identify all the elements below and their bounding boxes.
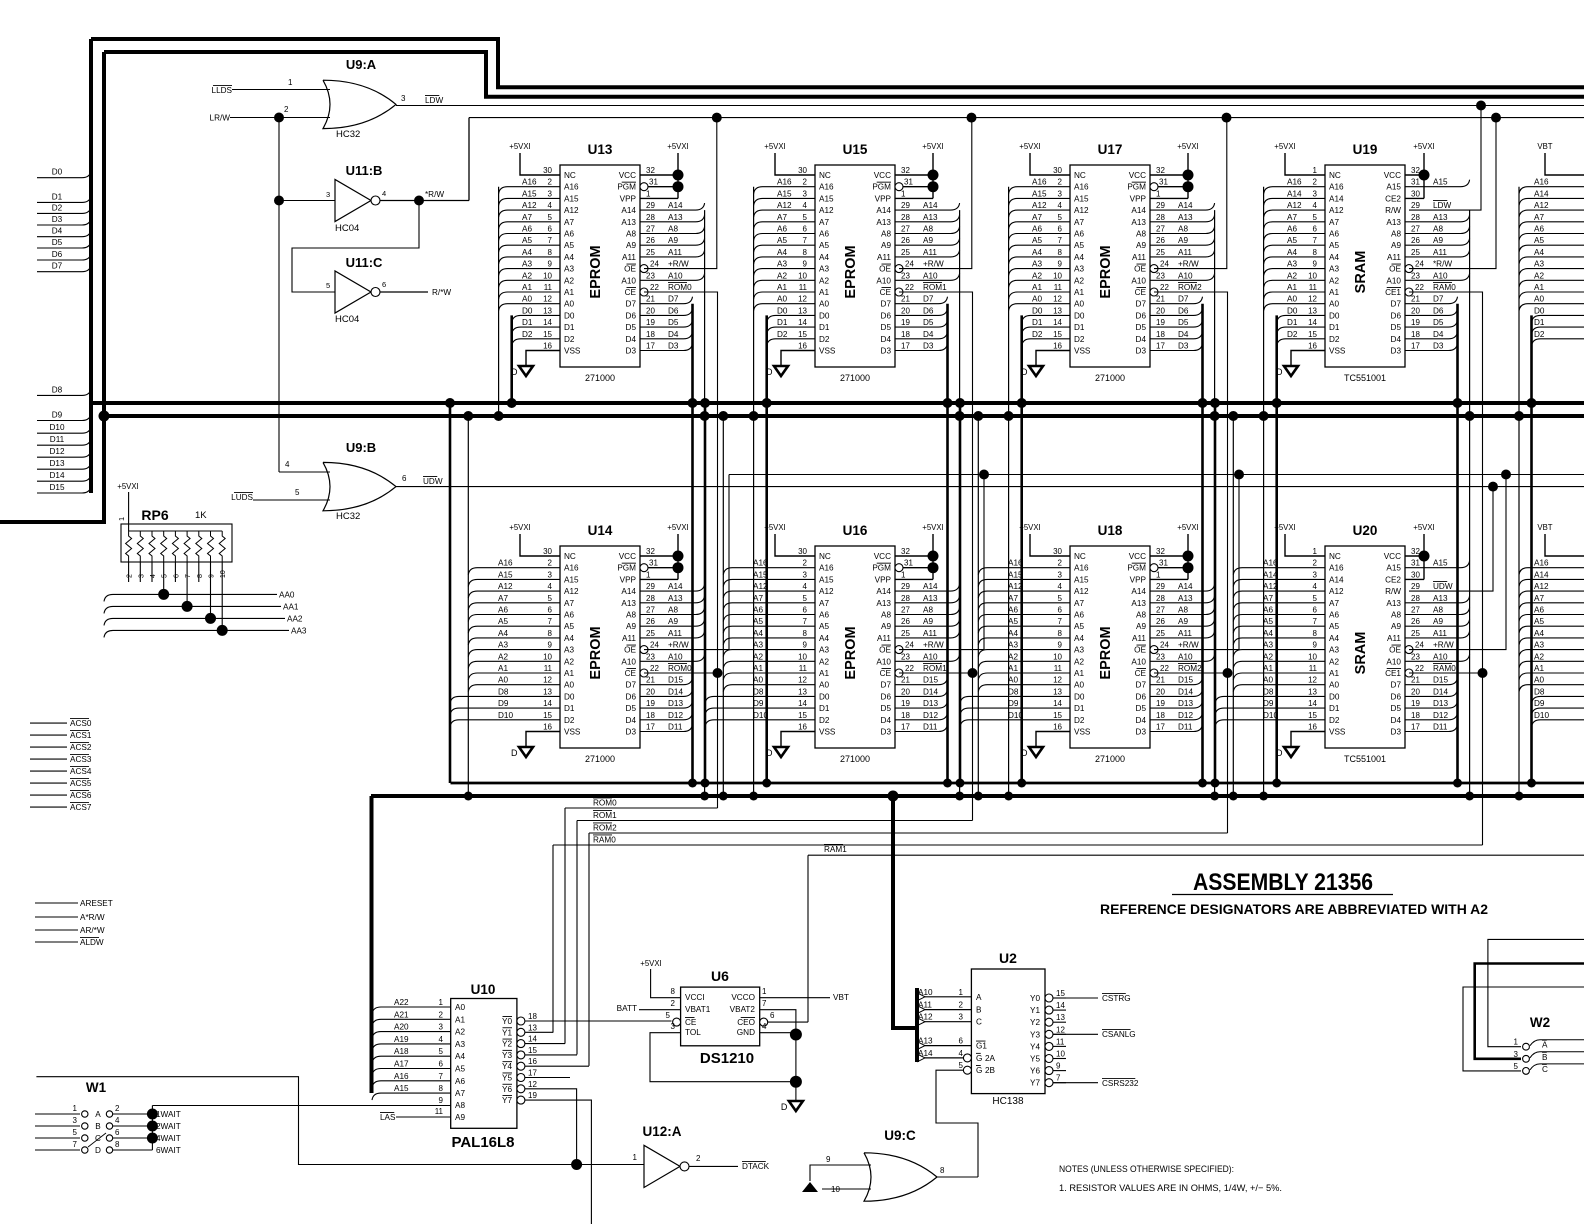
svg-text:VCC: VCC bbox=[874, 171, 891, 180]
svg-text:A3: A3 bbox=[1032, 260, 1042, 269]
svg-text:LDW: LDW bbox=[425, 96, 443, 105]
svg-text:A4: A4 bbox=[1032, 248, 1042, 257]
svg-text:D5: D5 bbox=[626, 704, 637, 713]
svg-text:A9: A9 bbox=[455, 1113, 465, 1122]
svg-text:4: 4 bbox=[803, 582, 808, 591]
svg-text:13: 13 bbox=[528, 1023, 537, 1032]
svg-text:D15: D15 bbox=[1178, 676, 1193, 685]
memory chip U17 bbox=[1009, 142, 1215, 383]
svg-text:A8: A8 bbox=[626, 230, 636, 239]
svg-text:A15: A15 bbox=[1386, 564, 1401, 573]
svg-text:A9: A9 bbox=[1178, 236, 1188, 245]
wire Y3 bbox=[525, 1054, 577, 1056]
svg-text:32: 32 bbox=[646, 166, 655, 175]
svg-text:A12: A12 bbox=[522, 201, 537, 210]
svg-text:A2: A2 bbox=[777, 271, 787, 280]
bottom address bus bbox=[371, 794, 1584, 798]
svg-text:TC551001: TC551001 bbox=[1344, 754, 1386, 764]
svg-text:RAM0: RAM0 bbox=[593, 836, 616, 845]
svg-text:3: 3 bbox=[138, 574, 145, 578]
svg-text:D3: D3 bbox=[626, 728, 637, 737]
svg-text:D7: D7 bbox=[881, 300, 892, 309]
svg-text:D15: D15 bbox=[49, 483, 64, 492]
svg-text:PGM: PGM bbox=[872, 183, 891, 192]
svg-text:ROM0: ROM0 bbox=[668, 283, 692, 292]
svg-text:A15: A15 bbox=[819, 194, 834, 203]
svg-text:D3: D3 bbox=[1178, 342, 1189, 351]
wire CSRS232 bbox=[1053, 1078, 1139, 1088]
svg-text:VCC: VCC bbox=[1129, 552, 1146, 561]
svg-text:1: 1 bbox=[1313, 547, 1318, 556]
svg-text:16: 16 bbox=[543, 723, 552, 732]
svg-text:18: 18 bbox=[1411, 711, 1420, 720]
connector W2 bbox=[1463, 939, 1584, 1074]
svg-text:A6: A6 bbox=[1329, 611, 1339, 620]
svg-text:D15: D15 bbox=[668, 676, 683, 685]
svg-text:4: 4 bbox=[382, 189, 386, 198]
svg-text:271000: 271000 bbox=[1095, 373, 1125, 383]
svg-text:17: 17 bbox=[1156, 342, 1165, 351]
svg-text:A9: A9 bbox=[1433, 617, 1443, 626]
svg-text:11: 11 bbox=[1309, 664, 1318, 673]
svg-text:A10: A10 bbox=[621, 276, 636, 285]
svg-text:D9: D9 bbox=[1534, 699, 1545, 708]
svg-text:A6: A6 bbox=[1074, 611, 1084, 620]
svg-text:A9: A9 bbox=[1136, 622, 1146, 631]
svg-text:A1: A1 bbox=[1074, 669, 1084, 678]
svg-text:D2: D2 bbox=[564, 335, 575, 344]
svg-text:10: 10 bbox=[543, 271, 552, 280]
svg-text:A4: A4 bbox=[522, 248, 532, 257]
svg-text:B: B bbox=[976, 1006, 982, 1015]
svg-text:A7: A7 bbox=[1074, 218, 1084, 227]
svg-text:HC04: HC04 bbox=[335, 223, 359, 234]
svg-text:A2: A2 bbox=[1329, 657, 1339, 666]
svg-text:NC: NC bbox=[819, 552, 831, 561]
svg-text:D3: D3 bbox=[1136, 728, 1147, 737]
svg-text:12: 12 bbox=[528, 1080, 537, 1089]
svg-text:+5VXI: +5VXI bbox=[1413, 142, 1434, 151]
svg-text:+5VXI: +5VXI bbox=[117, 482, 138, 491]
svg-text:D2: D2 bbox=[564, 716, 575, 725]
svg-text:A14: A14 bbox=[668, 201, 683, 210]
svg-text:10: 10 bbox=[543, 652, 552, 661]
svg-text:3: 3 bbox=[439, 1023, 444, 1032]
wire Y4 bbox=[525, 1065, 589, 1067]
svg-text:VBT: VBT bbox=[833, 993, 849, 1002]
svg-text:VPP: VPP bbox=[620, 575, 637, 584]
svg-text:28: 28 bbox=[901, 594, 910, 603]
svg-text:26: 26 bbox=[1411, 236, 1420, 245]
svg-text:7: 7 bbox=[803, 617, 808, 626]
svg-text:A2: A2 bbox=[564, 276, 574, 285]
wire R/*W output bbox=[380, 280, 451, 297]
bus frame top inner bbox=[104, 52, 1584, 97]
svg-text:A4: A4 bbox=[753, 629, 763, 638]
svg-text:A2: A2 bbox=[753, 652, 763, 661]
svg-text:CE2: CE2 bbox=[1385, 575, 1401, 584]
or-gate U9:B bbox=[323, 462, 396, 510]
svg-text:A12: A12 bbox=[1329, 587, 1344, 596]
svg-text:1: 1 bbox=[1156, 189, 1161, 198]
svg-text:A13: A13 bbox=[668, 213, 683, 222]
svg-text:19: 19 bbox=[901, 318, 910, 327]
svg-text:A8: A8 bbox=[881, 230, 891, 239]
svg-text:30: 30 bbox=[1411, 189, 1420, 198]
svg-text:ROM2: ROM2 bbox=[593, 824, 617, 833]
svg-text:1: 1 bbox=[646, 570, 651, 579]
svg-text:A13: A13 bbox=[876, 599, 891, 608]
svg-text:A6: A6 bbox=[819, 230, 829, 239]
svg-text:D8: D8 bbox=[1008, 687, 1019, 696]
svg-text:A15: A15 bbox=[1032, 189, 1047, 198]
svg-text:W1: W1 bbox=[86, 1080, 107, 1095]
label HC04 bbox=[335, 223, 359, 234]
svg-text:4: 4 bbox=[1313, 582, 1318, 591]
svg-text:15: 15 bbox=[798, 330, 807, 339]
svg-text:A16: A16 bbox=[394, 1072, 409, 1081]
svg-text:A4: A4 bbox=[1287, 248, 1297, 257]
svg-text:A0: A0 bbox=[1534, 295, 1544, 304]
svg-text:D0: D0 bbox=[564, 692, 575, 701]
svg-text:22: 22 bbox=[905, 664, 914, 673]
svg-text:D12: D12 bbox=[1178, 711, 1193, 720]
svg-text:A5: A5 bbox=[777, 236, 787, 245]
svg-text:23: 23 bbox=[1156, 271, 1165, 280]
svg-text:A8: A8 bbox=[1391, 611, 1401, 620]
svg-text:30: 30 bbox=[798, 547, 807, 556]
svg-text:A4: A4 bbox=[564, 634, 574, 643]
svg-text:6WAIT: 6WAIT bbox=[156, 1146, 181, 1155]
svg-text:1: 1 bbox=[73, 1104, 78, 1113]
svg-text:D12: D12 bbox=[923, 711, 938, 720]
svg-text:A13: A13 bbox=[1433, 213, 1448, 222]
svg-text:A0: A0 bbox=[1287, 295, 1297, 304]
svg-text:U19: U19 bbox=[1353, 142, 1378, 157]
svg-text:7: 7 bbox=[73, 1140, 78, 1149]
svg-text:D13: D13 bbox=[1433, 699, 1448, 708]
svg-text:A2: A2 bbox=[564, 657, 574, 666]
svg-text:A12: A12 bbox=[1534, 201, 1549, 210]
svg-text:22: 22 bbox=[650, 283, 659, 292]
svg-text:7: 7 bbox=[1058, 617, 1063, 626]
svg-text:A16: A16 bbox=[564, 564, 579, 573]
svg-text:D6: D6 bbox=[1433, 306, 1444, 315]
svg-text:A7: A7 bbox=[1032, 213, 1042, 222]
svg-text:D14: D14 bbox=[49, 471, 64, 480]
svg-text:23: 23 bbox=[1156, 652, 1165, 661]
svg-text:31: 31 bbox=[1411, 559, 1420, 568]
svg-text:D5: D5 bbox=[881, 704, 892, 713]
svg-text:D0: D0 bbox=[1074, 692, 1085, 701]
svg-text:A0: A0 bbox=[777, 295, 787, 304]
inverter U11:B title bbox=[346, 163, 383, 178]
svg-text:A7: A7 bbox=[1008, 594, 1018, 603]
svg-text:A8: A8 bbox=[923, 225, 933, 234]
svg-text:14: 14 bbox=[543, 699, 552, 708]
svg-text:A16: A16 bbox=[1534, 559, 1549, 568]
svg-text:A8: A8 bbox=[455, 1101, 465, 1110]
svg-text:U15: U15 bbox=[843, 142, 868, 157]
svg-text:A1: A1 bbox=[1074, 288, 1084, 297]
svg-text:D6: D6 bbox=[1136, 692, 1147, 701]
column 1 R/W nets bbox=[644, 118, 729, 650]
svg-text:1: 1 bbox=[901, 189, 906, 198]
svg-text:3: 3 bbox=[326, 190, 330, 199]
svg-text:A14: A14 bbox=[918, 1049, 933, 1058]
svg-text:+5VXI: +5VXI bbox=[640, 959, 661, 968]
svg-text:U17: U17 bbox=[1098, 142, 1123, 157]
wire U9:C input10 bbox=[822, 1185, 871, 1194]
svg-text:13: 13 bbox=[1308, 306, 1317, 315]
svg-text:D1: D1 bbox=[564, 323, 575, 332]
svg-text:EPROM: EPROM bbox=[588, 245, 604, 298]
svg-text:NOTES (UNLESS OTHERWISE SPECIF: NOTES (UNLESS OTHERWISE SPECIFIED): bbox=[1059, 1164, 1234, 1174]
svg-text:9: 9 bbox=[548, 641, 553, 650]
svg-text:A3: A3 bbox=[819, 265, 829, 274]
connector W1 bbox=[35, 1080, 181, 1155]
svg-text:271000: 271000 bbox=[1095, 754, 1125, 764]
svg-text:A7: A7 bbox=[1074, 599, 1084, 608]
svg-text:A22: A22 bbox=[394, 998, 409, 1007]
svg-text:RP6: RP6 bbox=[141, 507, 168, 523]
svg-text:15: 15 bbox=[528, 1046, 537, 1055]
svg-text:D6: D6 bbox=[626, 311, 637, 320]
svg-text:A0: A0 bbox=[1074, 681, 1084, 690]
svg-text:6: 6 bbox=[770, 1011, 775, 1020]
svg-text:A0: A0 bbox=[819, 300, 829, 309]
svg-text:A5: A5 bbox=[522, 236, 532, 245]
svg-text:D3: D3 bbox=[1433, 342, 1444, 351]
svg-text:32: 32 bbox=[1411, 547, 1420, 556]
svg-text:10: 10 bbox=[1056, 1050, 1065, 1059]
svg-text:A3: A3 bbox=[1074, 646, 1084, 655]
svg-text:A16: A16 bbox=[564, 183, 579, 192]
svg-text:A2: A2 bbox=[1287, 271, 1297, 280]
svg-text:TOL: TOL bbox=[685, 1028, 701, 1037]
svg-text:+5VXI: +5VXI bbox=[509, 142, 530, 151]
svg-text:A8: A8 bbox=[1178, 225, 1188, 234]
wire U11:C input bbox=[292, 201, 419, 293]
svg-text:A9: A9 bbox=[668, 617, 678, 626]
svg-text:A0: A0 bbox=[498, 676, 508, 685]
svg-text:A3: A3 bbox=[819, 646, 829, 655]
svg-text:5: 5 bbox=[959, 1061, 964, 1070]
svg-text:26: 26 bbox=[1156, 236, 1165, 245]
svg-text:D4: D4 bbox=[1391, 335, 1402, 344]
svg-text:31: 31 bbox=[1159, 178, 1168, 187]
svg-text:A0: A0 bbox=[455, 1003, 465, 1012]
svg-text:A15: A15 bbox=[1074, 575, 1089, 584]
svg-text:D14: D14 bbox=[1433, 687, 1448, 696]
svg-text:VBAT2: VBAT2 bbox=[730, 1005, 756, 1014]
svg-text:OE: OE bbox=[1389, 646, 1401, 655]
svg-text:ROM0: ROM0 bbox=[593, 799, 617, 808]
svg-text:1. RESISTOR VALUES ARE IN OHMS: 1. RESISTOR VALUES ARE IN OHMS, 1/4W, +/… bbox=[1059, 1183, 1282, 1193]
svg-text:24: 24 bbox=[650, 260, 659, 269]
svg-text:17: 17 bbox=[901, 342, 910, 351]
svg-text:7: 7 bbox=[1313, 617, 1318, 626]
svg-text:HC04: HC04 bbox=[335, 314, 359, 325]
svg-text:21: 21 bbox=[1411, 676, 1420, 685]
svg-text:A3: A3 bbox=[1329, 646, 1339, 655]
svg-text:16: 16 bbox=[798, 723, 807, 732]
svg-text:10: 10 bbox=[1308, 271, 1317, 280]
svg-text:18: 18 bbox=[646, 330, 655, 339]
svg-text:6: 6 bbox=[115, 1128, 120, 1137]
svg-text:A4: A4 bbox=[1263, 629, 1273, 638]
svg-text:A4: A4 bbox=[455, 1052, 465, 1061]
svg-text:A14: A14 bbox=[621, 587, 636, 596]
svg-text:A11: A11 bbox=[1387, 634, 1401, 643]
svg-text:D4: D4 bbox=[881, 335, 892, 344]
svg-text:32: 32 bbox=[1156, 166, 1165, 175]
svg-text:A2: A2 bbox=[819, 276, 829, 285]
svg-text:A11: A11 bbox=[1132, 634, 1146, 643]
svg-text:A7: A7 bbox=[455, 1089, 465, 1098]
svg-text:D4: D4 bbox=[626, 716, 637, 725]
wire DTACK input net bbox=[36, 1077, 644, 1170]
svg-text:A11: A11 bbox=[1178, 248, 1192, 257]
svg-text:23: 23 bbox=[1411, 652, 1420, 661]
svg-text:CE: CE bbox=[1135, 669, 1147, 678]
svg-text:A2: A2 bbox=[1032, 271, 1042, 280]
svg-text:Y1: Y1 bbox=[502, 1028, 512, 1037]
svg-text:28: 28 bbox=[901, 213, 910, 222]
svg-text:1: 1 bbox=[1514, 1038, 1519, 1047]
svg-text:D6: D6 bbox=[923, 306, 934, 315]
svg-text:A2: A2 bbox=[522, 271, 532, 280]
svg-text:D10: D10 bbox=[49, 423, 64, 432]
svg-text:A18: A18 bbox=[394, 1047, 409, 1056]
column 3 bus feed wires bbox=[955, 187, 1220, 801]
svg-text:9: 9 bbox=[826, 1155, 831, 1164]
svg-text:A11: A11 bbox=[923, 629, 937, 638]
svg-text:Y5: Y5 bbox=[502, 1074, 512, 1083]
svg-text:32: 32 bbox=[646, 547, 655, 556]
svg-text:D1: D1 bbox=[564, 704, 575, 713]
svg-text:29: 29 bbox=[646, 201, 655, 210]
svg-text:5: 5 bbox=[1313, 594, 1318, 603]
svg-text:6: 6 bbox=[803, 225, 808, 234]
svg-text:U6: U6 bbox=[711, 968, 729, 984]
svg-text:D7: D7 bbox=[1391, 681, 1402, 690]
svg-text:10: 10 bbox=[831, 1185, 840, 1194]
svg-text:12: 12 bbox=[1056, 1025, 1065, 1034]
svg-text:ACS2: ACS2 bbox=[70, 743, 92, 752]
svg-text:OE: OE bbox=[1134, 265, 1146, 274]
svg-text:A3: A3 bbox=[1534, 641, 1544, 650]
svg-text:VPP: VPP bbox=[1130, 194, 1147, 203]
svg-text:REFERENCE DESIGNATORS ARE ABBR: REFERENCE DESIGNATORS ARE ABBREVIATED WI… bbox=[1100, 902, 1488, 917]
svg-text:A10: A10 bbox=[1178, 652, 1193, 661]
svg-text:A4: A4 bbox=[1534, 248, 1544, 257]
svg-text:A0: A0 bbox=[564, 300, 574, 309]
svg-text:D9: D9 bbox=[753, 699, 764, 708]
label HC04 bbox=[335, 314, 359, 325]
svg-text:+5VXI: +5VXI bbox=[667, 523, 688, 532]
svg-text:A8: A8 bbox=[1136, 611, 1146, 620]
svg-text:A10: A10 bbox=[668, 271, 683, 280]
svg-text:25: 25 bbox=[646, 248, 655, 257]
svg-text:D4: D4 bbox=[1391, 716, 1402, 725]
svg-text:4: 4 bbox=[115, 1116, 120, 1125]
svg-text:24: 24 bbox=[1160, 641, 1169, 650]
svg-text:7: 7 bbox=[1056, 1074, 1061, 1083]
svg-text:GND: GND bbox=[737, 1028, 755, 1037]
bottom data bus bbox=[451, 782, 1584, 785]
svg-text:A1: A1 bbox=[753, 664, 763, 673]
svg-text:D1: D1 bbox=[777, 318, 788, 327]
svg-text:A10: A10 bbox=[1178, 271, 1193, 280]
svg-text:A5: A5 bbox=[455, 1065, 465, 1074]
wire Y0 to U6 CE bbox=[525, 1020, 672, 1022]
svg-text:3: 3 bbox=[548, 570, 553, 579]
svg-text:8: 8 bbox=[115, 1140, 120, 1149]
svg-text:VSS: VSS bbox=[819, 347, 836, 356]
inverter U12:A bbox=[644, 1145, 689, 1187]
svg-text:24: 24 bbox=[1415, 641, 1424, 650]
svg-text:D5: D5 bbox=[1136, 704, 1147, 713]
svg-text:AA2: AA2 bbox=[287, 614, 303, 623]
svg-text:21: 21 bbox=[646, 295, 655, 304]
svg-text:VSS: VSS bbox=[1074, 347, 1091, 356]
svg-text:26: 26 bbox=[646, 617, 655, 626]
wire Y7 bbox=[525, 1100, 591, 1224]
net labels ARESET group bbox=[35, 899, 113, 947]
svg-text:A13: A13 bbox=[923, 594, 938, 603]
svg-text:A14: A14 bbox=[923, 201, 938, 210]
svg-text:A6: A6 bbox=[564, 230, 574, 239]
svg-text:22: 22 bbox=[1160, 664, 1169, 673]
svg-text:A10: A10 bbox=[621, 657, 636, 666]
svg-text:A7: A7 bbox=[522, 213, 532, 222]
svg-text:2A: 2A bbox=[985, 1054, 996, 1063]
svg-text:D1: D1 bbox=[1329, 323, 1340, 332]
svg-text:VCCI: VCCI bbox=[685, 993, 705, 1002]
svg-text:8: 8 bbox=[548, 248, 553, 257]
battery SRAM column partial row2 bbox=[1519, 523, 1584, 727]
svg-text:SRAM: SRAM bbox=[1353, 251, 1369, 294]
svg-text:25: 25 bbox=[901, 248, 910, 257]
svg-text:AA0: AA0 bbox=[279, 590, 295, 599]
svg-text:30: 30 bbox=[1053, 547, 1062, 556]
svg-text:ARESET: ARESET bbox=[80, 899, 113, 908]
svg-text:28: 28 bbox=[646, 213, 655, 222]
svg-text:25: 25 bbox=[1411, 629, 1420, 638]
svg-text:A3: A3 bbox=[498, 641, 508, 650]
svg-text:A6: A6 bbox=[1008, 606, 1018, 615]
svg-text:A5: A5 bbox=[1329, 622, 1339, 631]
svg-text:A11: A11 bbox=[668, 629, 682, 638]
svg-text:A14: A14 bbox=[668, 582, 683, 591]
svg-text:1: 1 bbox=[117, 517, 126, 521]
svg-text:22: 22 bbox=[905, 283, 914, 292]
svg-text:A7: A7 bbox=[1263, 594, 1273, 603]
svg-text:6: 6 bbox=[402, 474, 407, 483]
svg-text:A0: A0 bbox=[564, 681, 574, 690]
svg-text:4WAIT: 4WAIT bbox=[156, 1134, 181, 1143]
svg-text:5: 5 bbox=[326, 281, 330, 290]
svg-text:A14: A14 bbox=[1329, 194, 1344, 203]
svg-text:UDW: UDW bbox=[1433, 582, 1453, 591]
wire VBAT2 net bbox=[760, 1010, 796, 1035]
svg-text:Y0: Y0 bbox=[502, 1017, 512, 1026]
svg-text:D6: D6 bbox=[881, 692, 892, 701]
svg-text:A0: A0 bbox=[1263, 676, 1273, 685]
svg-text:NC: NC bbox=[1074, 171, 1086, 180]
svg-text:11: 11 bbox=[1054, 664, 1063, 673]
